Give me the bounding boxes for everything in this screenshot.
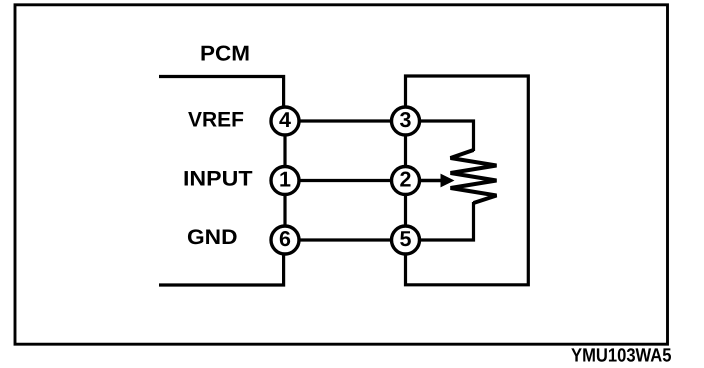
pin 2 (sensor signal): [392, 167, 420, 195]
wire: right column pin2-pin5: [404, 196, 407, 225]
wire: sensor outer loop (top, right, bottom): [406, 76, 529, 285]
pin 3 (sensor VREF): [392, 107, 420, 135]
svg-text:VREF: VREF: [188, 108, 244, 131]
wire: resistor top lead from pin3: [421, 121, 474, 151]
wire: left column pin1-pin6: [283, 196, 286, 225]
pin 4 (PCM VREF): [271, 107, 299, 135]
wire: left column pin4-pin1: [283, 136, 286, 165]
wire: PCM connector bottom bracket: [159, 255, 284, 285]
wire: INPUT row pin1-pin2: [300, 179, 390, 182]
svg-text:YMU103WA5: YMU103WA5: [571, 346, 672, 367]
wire: VREF row pin4-pin3: [300, 119, 390, 122]
pin 5 (sensor GND): [392, 226, 420, 254]
svg-text:6: 6: [279, 227, 291, 251]
wire: resistor bottom lead to pin5: [421, 202, 474, 240]
wire: right column pin3-pin2: [404, 136, 407, 165]
wire: PCM connector top bracket: [159, 77, 284, 106]
svg-text:3: 3: [400, 108, 412, 132]
svg-text:2: 2: [400, 168, 412, 192]
svg-text:5: 5: [400, 227, 412, 251]
wire: GND row pin6-pin5: [300, 238, 390, 241]
resistor (sensor potentiometer element): [451, 150, 497, 203]
pin 6 (PCM GND): [271, 226, 299, 254]
svg-text:4: 4: [279, 108, 291, 132]
svg-text:1: 1: [279, 168, 291, 192]
svg-text:GND: GND: [187, 226, 238, 249]
pin 1 (PCM INPUT): [271, 167, 299, 195]
svg-text:PCM: PCM: [200, 41, 250, 65]
svg-text:INPUT: INPUT: [183, 167, 253, 190]
wiper arrow from pin 2 into resistor: [421, 174, 455, 188]
